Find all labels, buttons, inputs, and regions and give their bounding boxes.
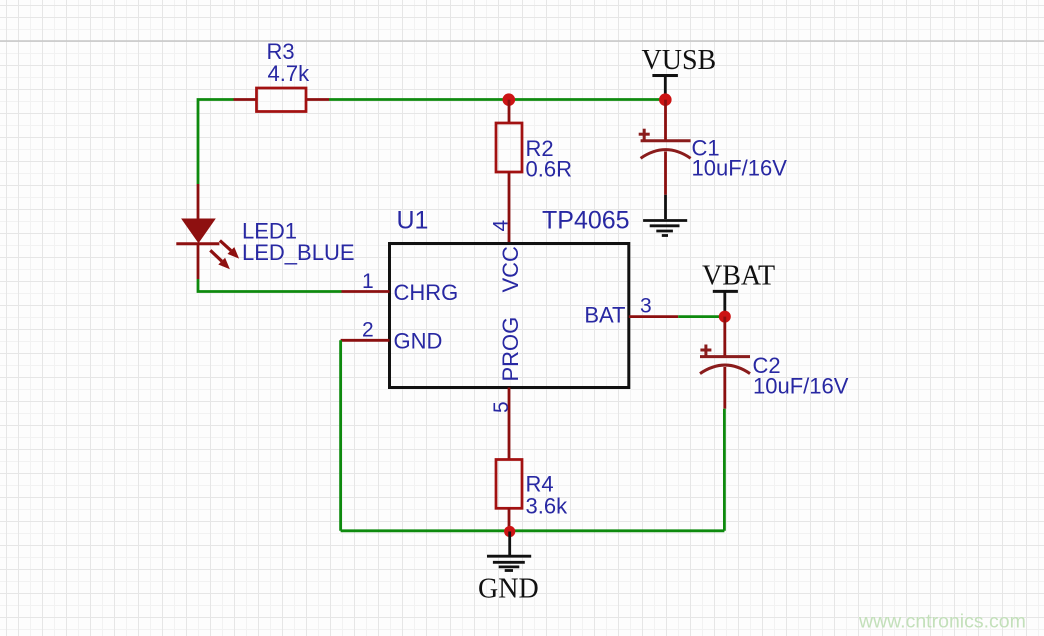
svg-text:10uF/16V: 10uF/16V	[753, 374, 849, 399]
svg-text:2: 2	[362, 319, 374, 342]
pin 1 of U1	[342, 270, 390, 293]
svg-text:4: 4	[490, 220, 513, 232]
svg-text:1: 1	[362, 270, 374, 293]
svg-text:GND: GND	[394, 329, 443, 354]
svg-text:TP4065: TP4065	[542, 207, 630, 235]
ground symbol (C1)	[643, 195, 687, 236]
svg-text:PROG: PROG	[498, 317, 523, 382]
svg-text:VCC: VCC	[498, 246, 523, 293]
wire: top net middle (R3 right to VUSB junction)	[329, 98, 665, 101]
ground symbol (main GND)	[487, 532, 531, 571]
svg-text:10uF/16V: 10uF/16V	[692, 156, 788, 181]
wire: pin 2 to bottom net (green)	[339, 340, 342, 531]
resistor R2	[496, 100, 522, 172]
svg-text:3.6k: 3.6k	[526, 494, 569, 519]
capacitor C2	[700, 317, 750, 409]
svg-text:www.cntronics.com: www.cntronics.com	[858, 611, 1026, 633]
svg-text:U1: U1	[397, 207, 429, 235]
node: bottom junction at GND	[504, 526, 515, 537]
wire: pin 3 to VBAT junction (green)	[678, 315, 725, 318]
wire: LED cathode to pin 1 (green)	[198, 279, 342, 292]
power port VUSB	[652, 76, 678, 97]
capacitor C1	[639, 100, 691, 195]
svg-text:5: 5	[490, 401, 513, 413]
svg-text:BAT: BAT	[584, 303, 625, 328]
IC U1 TP4065 body	[390, 244, 629, 388]
svg-text:3: 3	[640, 295, 652, 318]
wire: LED anode lead (red)	[197, 184, 200, 220]
svg-text:CHRG: CHRG	[394, 280, 459, 305]
resistor R3	[234, 88, 330, 112]
svg-text:0.6R: 0.6R	[526, 157, 572, 182]
LED LED1	[176, 219, 239, 280]
svg-text:GND: GND	[478, 574, 539, 605]
node: junction VUSB / C1	[659, 93, 672, 106]
node: junction at VCC column	[503, 93, 516, 106]
power port VBAT	[713, 291, 738, 313]
pin 2 of U1	[341, 319, 390, 342]
wire: C2 to bottom net (green)	[723, 409, 726, 531]
node: junction VBAT / C2	[719, 311, 731, 323]
wire: bottom net (green)	[341, 529, 725, 532]
svg-text:VUSB: VUSB	[642, 45, 717, 76]
wire: top net left segment (R3 left to LED anode corner)	[198, 100, 234, 185]
svg-text:VBAT: VBAT	[702, 261, 775, 292]
svg-text:LED_BLUE: LED_BLUE	[242, 240, 355, 265]
pin 5 of U1	[490, 388, 513, 460]
wire: R2 bottom to U1 VCC pin 4	[508, 172, 511, 244]
svg-text:4.7k: 4.7k	[268, 61, 311, 86]
pin 3 of U1	[629, 295, 678, 318]
resistor R4	[496, 460, 522, 532]
